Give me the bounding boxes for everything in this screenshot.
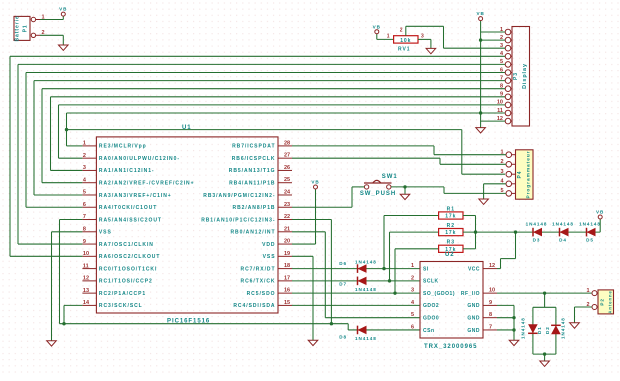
svg-text:16: 16 (284, 288, 290, 294)
svg-text:12: 12 (83, 276, 89, 282)
svg-text:RB2/AN8/P1B: RB2/AN8/P1B (233, 205, 276, 211)
svg-text:RV1: RV1 (398, 46, 411, 52)
svg-text:1: 1 (586, 288, 589, 294)
svg-text:3: 3 (500, 169, 503, 175)
svg-text:2: 2 (400, 27, 403, 33)
svg-text:RA4/T0CKI/C1OUT: RA4/T0CKI/C1OUT (99, 205, 157, 211)
svg-text:8: 8 (83, 226, 86, 232)
svg-text:D8: D8 (339, 334, 347, 339)
svg-text:2: 2 (411, 275, 414, 281)
svg-text:RB0/AN12/INT: RB0/AN12/INT (230, 230, 275, 236)
svg-text:7: 7 (83, 214, 86, 220)
svg-text:VCC: VCC (468, 266, 480, 272)
svg-text:P2: P2 (600, 298, 605, 306)
svg-text:RC4/SDI/SDA: RC4/SDI/SDA (233, 303, 275, 309)
svg-text:1N4148: 1N4148 (579, 221, 601, 226)
svg-text:7: 7 (500, 75, 503, 81)
svg-text:1: 1 (387, 33, 390, 39)
svg-text:1: 1 (83, 141, 86, 147)
svg-text:D2: D2 (545, 326, 550, 334)
svg-text:RA6/OSC2/CLKOUT: RA6/OSC2/CLKOUT (99, 254, 160, 260)
svg-text:GDO2: GDO2 (423, 303, 439, 309)
svg-text:11: 11 (497, 108, 503, 114)
svg-text:9: 9 (500, 92, 503, 98)
svg-text:17k: 17k (445, 214, 456, 220)
svg-text:SO_(GDO1): SO_(GDO1) (423, 291, 455, 297)
svg-text:1N4148: 1N4148 (521, 317, 526, 339)
svg-text:6: 6 (500, 67, 503, 73)
svg-text:21: 21 (284, 226, 290, 232)
svg-text:RA7/OSC1/CLKIN: RA7/OSC1/CLKIN (99, 242, 154, 248)
svg-text:10: 10 (497, 100, 503, 106)
svg-text:25: 25 (284, 177, 290, 183)
svg-text:17: 17 (284, 275, 290, 281)
svg-text:RC0/T1OSO/T1CKI: RC0/T1OSO/T1CKI (99, 266, 157, 272)
svg-text:1N4148: 1N4148 (355, 336, 377, 341)
svg-text:RB6/ICSPCLK: RB6/ICSPCLK (232, 156, 276, 162)
svg-text:GND: GND (467, 315, 480, 321)
svg-text:9: 9 (489, 300, 492, 306)
svg-text:3: 3 (411, 288, 414, 294)
svg-text:RB3/AN9/PGM/C12IN2-: RB3/AN9/PGM/C12IN2- (203, 193, 275, 199)
svg-text:SCLK: SCLK (423, 279, 439, 285)
svg-text:8: 8 (489, 312, 492, 318)
svg-text:RE3/MCLR/Vpp: RE3/MCLR/Vpp (99, 144, 147, 150)
svg-text:10: 10 (83, 251, 89, 257)
svg-text:P3: P3 (513, 72, 519, 80)
svg-text:23: 23 (284, 202, 290, 208)
svg-text:Display: Display (522, 63, 528, 89)
svg-text:VSS: VSS (263, 254, 276, 260)
svg-text:VSS: VSS (99, 230, 112, 236)
svg-text:RC1/T1OSI/CCP2: RC1/T1OSI/CCP2 (99, 279, 153, 285)
svg-text:VB: VB (596, 210, 604, 215)
svg-text:Batterie: Batterie (15, 15, 21, 41)
svg-text:1N4148: 1N4148 (552, 221, 574, 226)
svg-text:1N4148: 1N4148 (526, 221, 548, 226)
svg-text:RB7/ICSPDAT: RB7/ICSPDAT (232, 144, 275, 150)
svg-text:R2: R2 (447, 223, 455, 229)
svg-text:18: 18 (284, 263, 290, 269)
svg-text:12: 12 (489, 263, 495, 269)
svg-text:26: 26 (284, 165, 290, 171)
svg-text:D6: D6 (339, 261, 347, 266)
svg-text:24: 24 (284, 189, 291, 195)
svg-text:VB: VB (59, 7, 67, 12)
svg-text:RA5/AN4/SS/C2OUT: RA5/AN4/SS/C2OUT (99, 217, 162, 223)
svg-text:P4: P4 (517, 170, 523, 178)
svg-text:U1: U1 (182, 125, 192, 131)
svg-text:D5: D5 (586, 238, 594, 243)
svg-text:3: 3 (83, 165, 86, 171)
svg-text:20: 20 (284, 239, 290, 245)
svg-text:D1: D1 (537, 326, 542, 334)
svg-text:CSn: CSn (423, 328, 435, 334)
svg-text:VB: VB (476, 11, 484, 16)
svg-text:11: 11 (83, 263, 89, 269)
svg-text:17k: 17k (445, 230, 456, 236)
svg-text:28: 28 (284, 140, 290, 146)
svg-text:RA0/AN0/ULPWU/C12IN0-: RA0/AN0/ULPWU/C12IN0- (99, 156, 180, 162)
svg-text:27: 27 (284, 153, 290, 159)
svg-text:22: 22 (284, 214, 290, 220)
svg-text:R3: R3 (447, 240, 455, 246)
svg-text:RB5/AN13/T1G: RB5/AN13/T1G (229, 168, 276, 174)
svg-text:10k: 10k (400, 38, 411, 44)
svg-text:GDO0: GDO0 (423, 315, 439, 321)
svg-text:5: 5 (500, 59, 503, 65)
svg-text:19: 19 (284, 251, 290, 257)
svg-text:7: 7 (489, 324, 492, 330)
svg-text:D7: D7 (339, 281, 347, 286)
svg-text:Antenne: Antenne (608, 290, 613, 313)
svg-text:P1: P1 (23, 24, 29, 32)
svg-text:9: 9 (83, 239, 86, 245)
svg-text:Programmateur: Programmateur (526, 150, 532, 198)
svg-text:D3: D3 (533, 238, 541, 243)
svg-text:VB: VB (311, 180, 319, 185)
svg-text:RA1/AN1/C12IN1-: RA1/AN1/C12IN1- (99, 168, 155, 174)
svg-text:8: 8 (500, 84, 503, 90)
svg-text:14: 14 (83, 300, 90, 306)
svg-text:U2: U2 (445, 252, 455, 258)
svg-text:RF_I/O: RF_I/O (461, 291, 480, 297)
svg-text:2: 2 (83, 153, 86, 159)
svg-text:1N4148: 1N4148 (355, 287, 377, 292)
svg-text:RC7/RX/DT: RC7/RX/DT (241, 266, 276, 272)
svg-text:6: 6 (411, 324, 414, 330)
svg-text:R1: R1 (447, 206, 455, 212)
svg-text:VDD: VDD (262, 242, 275, 248)
svg-text:RC3/SCK/SCL: RC3/SCK/SCL (99, 303, 143, 309)
svg-text:5: 5 (411, 312, 414, 318)
svg-text:RA2/AN2/VREF-/CVREF/C2IN+: RA2/AN2/VREF-/CVREF/C2IN+ (99, 181, 195, 187)
svg-text:RB4/AN11/P1B: RB4/AN11/P1B (229, 181, 275, 187)
svg-text:RC6/TX/CK: RC6/TX/CK (241, 279, 276, 285)
svg-text:RA3/AN3/VREF+/C1IN+: RA3/AN3/VREF+/C1IN+ (99, 193, 172, 199)
svg-text:RC2/P1A/CCP1: RC2/P1A/CCP1 (99, 291, 146, 297)
svg-text:SW_PUSH: SW_PUSH (360, 191, 396, 197)
svg-text:5: 5 (83, 190, 86, 196)
svg-text:RB1/AN10/P1C/C12IN3-: RB1/AN10/P1C/C12IN3- (201, 217, 275, 223)
svg-text:TRX_32000965: TRX_32000965 (424, 344, 477, 350)
svg-text:SI: SI (423, 266, 429, 272)
svg-text:6: 6 (83, 202, 86, 208)
svg-text:15: 15 (284, 300, 290, 306)
svg-text:GND: GND (467, 328, 480, 334)
svg-text:VB: VB (373, 24, 381, 29)
svg-text:1: 1 (411, 263, 414, 269)
svg-text:1N4148: 1N4148 (561, 317, 566, 339)
svg-text:10: 10 (489, 288, 495, 294)
svg-text:13: 13 (83, 288, 89, 294)
svg-text:SW1: SW1 (382, 174, 398, 180)
svg-text:1N4148: 1N4148 (355, 259, 377, 264)
svg-text:D4: D4 (559, 238, 567, 243)
svg-text:GND: GND (467, 303, 480, 309)
svg-text:RC5/SDO: RC5/SDO (247, 291, 276, 297)
svg-text:3: 3 (421, 33, 424, 39)
